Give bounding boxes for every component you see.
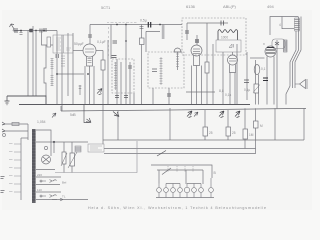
node G2 — [87, 73, 89, 75]
resistor R13 — [243, 108, 254, 148]
capacitor grid V2 — [185, 31, 189, 33]
coil box L1 (band coil assembly) — [53, 35, 73, 53]
wire V1 legs — [85, 66, 94, 105]
wire V5 left lead — [250, 57, 265, 59]
coil L3a ticks — [51, 59, 54, 87]
wire x277 — [276, 40, 278, 108]
svg-text:TL: TL — [62, 195, 66, 199]
chassis arrow 2 — [113, 112, 119, 117]
wire x282 — [281, 17, 283, 30]
resistor R2 — [47, 37, 51, 47]
riser to button7 — [202, 170, 204, 184]
wire x275 — [274, 108, 276, 140]
wire vertical x36 — [35, 31, 37, 97]
svg-text:8,8: 8,8 — [219, 89, 224, 93]
transformer core — [32, 129, 36, 203]
wire antenna input line — [14, 30, 57, 32]
capacitor C13 — [124, 96, 128, 98]
node A3 — [43, 30, 45, 32]
coil L2 ticks — [61, 56, 65, 66]
wire AVC line — [57, 73, 84, 75]
svg-text:6136: 6136 — [186, 4, 196, 9]
svg-text:1M: 1M — [249, 133, 254, 137]
pushbutton second line — [157, 169, 203, 171]
diode D1 — [229, 44, 234, 48]
wire tube V1 grid cap — [89, 25, 91, 45]
wire y45 — [42, 31, 54, 53]
capacitor IF2 — [152, 69, 157, 72]
wire vertical x62 — [61, 35, 63, 111]
trimmer T3 — [79, 85, 82, 95]
coil L-ant — [30, 29, 33, 32]
wire y31.4 — [146, 31, 160, 52]
output section frame — [270, 17, 298, 36]
ground main — [5, 96, 10, 105]
wire x169 — [168, 88, 170, 105]
wire V2 cap — [196, 35, 198, 45]
chassis arrow 5 — [235, 111, 240, 118]
wire main bus A — [19, 104, 250, 106]
svg-text:220: 220 — [37, 173, 42, 177]
oscillator coil steps — [44, 52, 46, 96]
wire mid line y92 — [186, 91, 215, 93]
fuse F1 — [12, 123, 19, 126]
speaker wires — [286, 31, 296, 105]
node O1 — [125, 40, 127, 42]
node rect out — [53, 141, 55, 143]
pushbutton bottom bus — [156, 197, 214, 199]
resistor R8 — [253, 84, 260, 93]
switch arm S1 — [157, 151, 166, 157]
grid cap box — [272, 39, 285, 49]
left edge mark 1 — [1, 177, 5, 179]
svg-text:0,1µ: 0,1µ — [225, 93, 231, 97]
resistor R14 — [254, 108, 264, 148]
chassis arrow 3 — [187, 111, 192, 118]
resistor R12 — [226, 110, 236, 140]
resistor R9 hatched — [284, 40, 288, 52]
capacitor C7 — [221, 21, 224, 26]
wire V1 right lead — [96, 50, 103, 52]
capacitor C-hang — [20, 31, 23, 35]
wire vertical x57 — [56, 31, 58, 105]
coil IF2b dome — [174, 48, 181, 70]
rheostat R17 — [68, 142, 77, 173]
small circle lamp — [44, 146, 47, 149]
wire IF1 internal — [121, 62, 130, 105]
wire vertical x103 — [102, 51, 104, 105]
wire rail y148 — [104, 149, 256, 154]
wire osc top line — [187, 22, 228, 24]
wire x54 drop — [53, 142, 55, 153]
svg-text:50µµF: 50µµF — [74, 42, 84, 46]
resistor R3 — [101, 60, 105, 70]
svg-text:0,5µ: 0,5µ — [140, 19, 147, 23]
tube V4 diode — [254, 60, 260, 105]
box ballast — [75, 146, 81, 152]
resistor R6 — [205, 62, 209, 73]
capacitor C15 — [112, 56, 117, 58]
capacitor C3 — [56, 54, 59, 58]
mains plug — [2, 122, 28, 137]
wire x103 drop — [102, 105, 104, 144]
left edge mark 2 — [1, 191, 5, 193]
pushbutton circles — [157, 178, 214, 198]
IF transformer T2 dashed box — [148, 52, 184, 88]
capacitor C12 — [115, 96, 119, 98]
svg-text:ABL(P): ABL(P) — [223, 4, 237, 9]
svg-text:5CT1: 5CT1 — [101, 6, 110, 10]
resistor R16 — [61, 142, 67, 173]
svg-text:0,1µF: 0,1µF — [97, 40, 106, 44]
wire x213 — [212, 44, 214, 105]
rectifier tube V6 — [42, 155, 51, 164]
tiny text above rail — [107, 21, 137, 23]
resistor R11 — [203, 110, 213, 140]
wire V3 top — [232, 52, 234, 55]
wire vertical x141.5 — [141, 25, 143, 105]
wire vertical x33 — [32, 26, 34, 96]
svg-text:25: 25 — [232, 131, 236, 135]
svg-text:0,1: 0,1 — [261, 67, 266, 71]
box Gleichstrom — [88, 144, 104, 152]
coil IF1a — [114, 62, 117, 90]
node A2 — [35, 30, 37, 32]
wire main bus B — [61, 108, 306, 111]
wire riser left — [158, 170, 160, 184]
capacitor C16 — [140, 27, 144, 29]
svg-text:0,1µ: 0,1µ — [244, 88, 250, 92]
pushbutton top line — [151, 165, 212, 178]
wire bus ground y96 — [7, 96, 46, 105]
riser to button5 — [185, 170, 187, 184]
svg-text:Bel: Bel — [62, 181, 67, 185]
switch arm PB — [162, 168, 171, 175]
chassis arrow 7 — [52, 113, 56, 118]
svg-text:5dB: 5dB — [70, 113, 76, 117]
capacitor C4 ant — [44, 28, 46, 32]
wire vertical x134 — [133, 93, 135, 105]
loudspeaker — [295, 79, 307, 89]
capacitor C11 — [263, 78, 268, 81]
svg-text:494: 494 — [267, 4, 274, 9]
wire bus B left end — [60, 106, 62, 111]
wire vertical x73 — [72, 33, 74, 105]
svg-text:25: 25 — [209, 131, 213, 135]
wire V5 legs — [267, 57, 274, 105]
wire rect output — [36, 141, 88, 143]
tap labels left — [9, 144, 13, 192]
capacitor grid cap mark — [88, 35, 92, 37]
capacitor C5 bold — [148, 22, 150, 28]
coil osc zigzag — [218, 30, 238, 40]
wire y28.5 — [282, 28, 294, 30]
wire vertical x117 — [116, 59, 118, 105]
tube V2 — [191, 40, 202, 66]
wire top rail y24.5 — [90, 24, 182, 26]
wire x28 down — [27, 131, 29, 140]
wire V1 left lead — [73, 50, 83, 52]
tap arrow row5 — [52, 198, 63, 201]
tube V3 — [228, 55, 238, 73]
node T1 — [116, 24, 118, 26]
transformer primary — [14, 138, 28, 200]
tap switch row2 — [40, 180, 57, 183]
capacitor C9 — [244, 80, 249, 83]
tap switch row4 — [40, 195, 57, 198]
wire V2 legs — [192, 66, 202, 105]
wire vertical x108 — [107, 40, 109, 105]
wire vertical x28 — [27, 31, 29, 97]
capacitor mark x169 — [167, 94, 171, 96]
wire x223 — [222, 52, 224, 105]
wire x237 — [236, 44, 238, 105]
secondary HT loop — [36, 130, 51, 156]
group bar 1 — [166, 183, 180, 185]
tube V1 ECH — [83, 44, 96, 66]
field coil — [295, 18, 300, 31]
wire vertical x111 — [110, 25, 112, 60]
capacitor C2 — [40, 29, 42, 33]
box lamp housing — [55, 141, 137, 173]
wire x153 — [152, 88, 154, 105]
node T2 — [125, 24, 127, 26]
svg-text:4: 4 — [279, 23, 281, 27]
svg-text:M: M — [260, 124, 263, 128]
wire vertical x126 — [125, 25, 127, 105]
chassis arrow 4 — [219, 111, 224, 118]
label column tiny — [108, 27, 110, 56]
node A1 — [20, 30, 22, 32]
wire AVC rail y140 — [103, 139, 304, 141]
wire x305 right riser — [303, 108, 305, 140]
voltage selector rows — [36, 170, 88, 200]
svg-text:1000: 1000 — [221, 36, 228, 40]
coil IF2a — [160, 57, 163, 85]
oscillator dashed box — [182, 18, 246, 55]
svg-text:Hela d. Söhn, Wien XI., Wechse: Hela d. Söhn, Wien XI., Wechselstrom, 1 … — [88, 206, 266, 210]
wire V3 legs — [230, 73, 235, 105]
wire x170 drop — [169, 108, 171, 140]
node T5 — [159, 24, 161, 26]
chassis arrow 1 — [84, 105, 91, 123]
chassis arrow 6 — [97, 89, 102, 95]
IF transformer T1 dashed box — [112, 59, 134, 93]
group bar 2 — [187, 183, 201, 185]
resistor R4 — [140, 38, 145, 45]
capacitor C-ant — [15, 28, 17, 33]
svg-text:1,054: 1,054 — [37, 120, 46, 124]
wire x207 — [206, 23, 208, 105]
wire x247 — [246, 52, 248, 100]
tube V5 output — [265, 46, 276, 57]
wire vertical x68 — [67, 33, 69, 96]
dashed stems — [168, 166, 193, 172]
capacitor IF1 trim — [128, 66, 132, 68]
wire x118 drop — [117, 111, 119, 140]
svg-text:x: x — [263, 42, 265, 46]
coil L5 — [162, 25, 166, 40]
node G1 — [56, 73, 58, 75]
antenna — [10, 24, 21, 31]
wire grid lead V2 — [186, 23, 188, 40]
svg-text:110: 110 — [37, 188, 42, 192]
coil box osc — [216, 40, 241, 52]
chassis arrow 3b — [194, 112, 198, 117]
capacitor C14 — [113, 41, 118, 43]
